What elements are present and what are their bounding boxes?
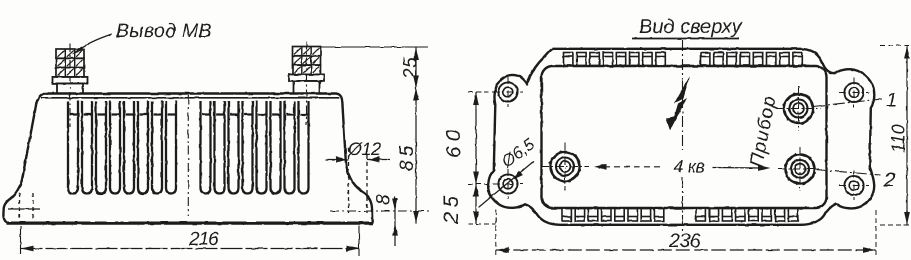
- terminal 1: [777, 87, 821, 131]
- svg-text:1: 1: [886, 89, 897, 112]
- mounting hole top-right: [839, 78, 869, 108]
- svg-text:4 кв: 4 кв: [673, 156, 704, 176]
- top view outer outline: [488, 49, 874, 225]
- body top face line: [41, 97, 339, 99]
- leader to left stud: [79, 34, 112, 50]
- left foot hidden hole: [8, 193, 40, 221]
- centre axis between fin groups: [187, 95, 189, 216]
- svg-text:Ø12: Ø12: [347, 139, 381, 159]
- view centre line: [682, 40, 684, 150]
- dim 60 (left chain): [468, 91, 496, 93]
- top view inner plate: [542, 66, 827, 208]
- front view: body outline: [3, 94, 372, 223]
- terminal HV output: [541, 143, 589, 191]
- fin ends bottom row right: [696, 209, 798, 222]
- arrow to terminal 2: [712, 167, 762, 170]
- dim 236 (top view width): [495, 210, 497, 256]
- dim 8 (foot height): [394, 197, 396, 246]
- svg-text:Вид сверху: Вид сверху: [639, 16, 743, 38]
- mounting hole bottom-left: [493, 169, 523, 199]
- dim 110 (top view height): [880, 45, 911, 47]
- dashed arrow to HV terminal: [604, 166, 661, 168]
- svg-text:110: 110: [889, 124, 909, 153]
- mounting hole top-left: [493, 77, 523, 107]
- cooling fins left group: [68, 101, 176, 194]
- svg-text:60: 60: [443, 125, 466, 158]
- fin ends top row right: [701, 53, 803, 66]
- terminal 2: [778, 147, 822, 191]
- svg-text:Вывод МВ: Вывод МВ: [116, 20, 212, 42]
- svg-text:8: 8: [374, 194, 395, 205]
- mounting hole bottom-right: [839, 171, 869, 201]
- svg-text:236: 236: [668, 230, 701, 252]
- fin ends bottom row left: [562, 209, 664, 222]
- lightning bolt (high voltage): [674, 76, 690, 104]
- terminal stud right (Вывод МВ): [289, 42, 324, 125]
- body bottom edge (thick): [6, 223, 373, 225]
- leader + label 2: [815, 170, 880, 176]
- terminal stud left (Вывод МВ): [53, 44, 88, 127]
- leader + label 1: [813, 99, 882, 107]
- dim 216 (front width): [20, 226, 22, 254]
- svg-text:85: 85: [397, 142, 418, 171]
- svg-text:2: 2: [883, 169, 896, 192]
- dim Ø12 (foot hole): [326, 159, 349, 161]
- svg-text:25: 25: [401, 57, 422, 80]
- dim 25 / 85 chain (right of front view): [321, 46, 428, 48]
- fin ends top row left: [564, 53, 666, 66]
- cooling fins right group: [201, 101, 309, 194]
- foot axis line: [330, 210, 432, 212]
- right foot hidden hole: [349, 148, 368, 213]
- svg-text:216: 216: [188, 229, 219, 250]
- svg-text:25: 25: [440, 191, 463, 225]
